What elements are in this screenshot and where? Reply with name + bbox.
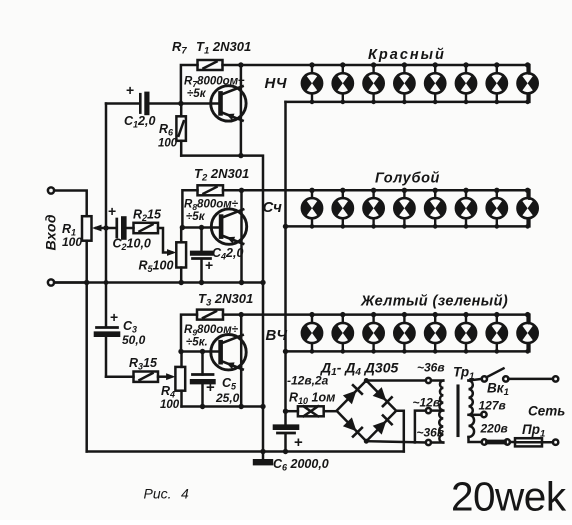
svg-text:+: +: [294, 434, 303, 451]
svg-text:127в: 127в: [479, 399, 506, 413]
wire signal column C1-C2-C3: [105, 104, 108, 327]
svg-text:+: +: [205, 257, 213, 273]
fuse Pr1: [515, 438, 553, 446]
wire bridge bottom to ~36v lower tap: [366, 441, 426, 442]
capacitor C2: [117, 219, 134, 237]
svg-text:220в: 220в: [480, 422, 508, 436]
wire T3 collector-emitter column: [240, 315, 243, 407]
svg-text:Голубой: Голубой: [375, 171, 440, 187]
wire T2 collector-emitter column: [240, 190, 243, 282]
svg-text:НЧ: НЧ: [265, 75, 287, 92]
node R10 junction on return column: [283, 409, 288, 414]
input terminal upper: [48, 187, 54, 193]
lamp row1 #6: [456, 62, 476, 104]
node T1 base junction: [178, 101, 183, 106]
wire T2 base: [182, 226, 221, 229]
lamp row1 #1: [302, 62, 322, 104]
node row2 bottom bus joins return: [283, 224, 288, 229]
svg-text:Сеть: Сеть: [528, 404, 565, 419]
lamp row3 #6: [456, 312, 476, 354]
svg-text:Тр1: Тр1: [453, 365, 474, 383]
wire T3 emitter rail: [182, 405, 264, 408]
transformer Tr1 primary winding: [439, 381, 443, 443]
svg-text:Красный: Красный: [368, 47, 446, 63]
svg-text:R8800ом÷: R8800ом÷: [184, 199, 239, 213]
node bridge bottom vertex: [364, 439, 369, 444]
resistor R2: [134, 223, 159, 233]
svg-text:R4: R4: [161, 384, 175, 400]
lamp row3 #2: [333, 312, 353, 354]
lamp row3 #5: [425, 312, 445, 354]
svg-text:C5: C5: [222, 376, 237, 392]
svg-text:R10 1ом: R10 1ом: [289, 391, 335, 407]
svg-text:R215: R215: [133, 208, 162, 224]
capacitor C1: [106, 94, 221, 112]
node T1 collector: [238, 62, 243, 67]
lamp row2 #5: [425, 188, 445, 229]
node T2 emitter on ground rail: [239, 280, 244, 285]
wire row1 top bus: [223, 65, 530, 74]
svg-text:+: +: [126, 82, 134, 98]
svg-text:÷5к: ÷5к: [186, 211, 206, 223]
lamp row2 #1: [302, 188, 322, 229]
resistor R3: [134, 372, 159, 382]
node T1 emitter: [238, 153, 243, 158]
node signal column crosses ground rail: [104, 280, 109, 285]
potentiometer R5: [176, 228, 186, 283]
wire T1 emitter rail: [181, 154, 241, 157]
transistor T2: [211, 209, 246, 244]
transistor T1: [211, 86, 246, 121]
node T3 emitter: [239, 404, 244, 409]
node T3 collector: [239, 312, 244, 317]
svg-text:100: 100: [160, 399, 180, 411]
node R5 bottom on ground rail: [179, 280, 184, 285]
svg-text:T1 2N301: T1 2N301: [196, 39, 251, 57]
svg-text:Д1- Д4 Д305: Д1- Д4 Д305: [320, 360, 398, 379]
svg-text:4: 4: [181, 486, 189, 502]
node C5 bottom: [200, 404, 205, 409]
switch Vk1: [482, 368, 553, 381]
terminal mains upper: [553, 376, 558, 381]
wire row3 bottom bus: [286, 343, 530, 351]
svg-text:Пр1: Пр1: [522, 422, 545, 440]
lamp row2 #4: [394, 188, 414, 229]
lamp row2 #7: [487, 188, 507, 229]
R1 wiper arrow: [96, 227, 115, 230]
lamp row1 #2: [333, 62, 353, 104]
resistor R9: [181, 310, 223, 352]
svg-text:20wek: 20wek: [451, 474, 567, 520]
switch pole lower closed contact: [482, 439, 515, 444]
wire ~12v tap branch: [415, 411, 426, 443]
ground symbol: [253, 452, 273, 466]
transistor T3: [211, 335, 246, 370]
R5 wiper arrow: [167, 249, 176, 256]
svg-text:Сч: Сч: [263, 199, 283, 216]
terminal mains lower: [553, 440, 558, 445]
wire row1 bottom bus: [286, 94, 530, 102]
wire T3 base: [181, 350, 221, 353]
svg-text:R5100: R5100: [139, 259, 174, 275]
diode D2 top-right: [373, 387, 387, 401]
svg-text:100: 100: [62, 235, 82, 249]
R4 wiper arrow: [166, 373, 175, 380]
svg-text:50,0: 50,0: [122, 333, 146, 347]
resistor R8: [182, 185, 223, 227]
potentiometer R4: [175, 352, 185, 407]
wire left outer column to bottom rail: [85, 283, 88, 452]
transformer core: [456, 386, 459, 436]
terminal 127v: [481, 412, 486, 417]
diode bridge ring: [337, 381, 397, 442]
wire bridge right vertex to bottom rail: [396, 411, 404, 452]
node ground column on bottom rail: [260, 449, 265, 454]
svg-text:÷5к.: ÷5к.: [186, 337, 208, 349]
node C4 bottom on ground rail: [199, 280, 204, 285]
svg-text:R6: R6: [159, 122, 174, 138]
wire row2 bottom bus: [286, 219, 530, 227]
resistor R6: [176, 104, 186, 156]
capacitor C4: [193, 228, 211, 283]
svg-text:R78000ом÷: R78000ом÷: [184, 76, 245, 90]
svg-text:~12в: ~12в: [413, 396, 441, 410]
terminal ~36v top: [426, 378, 431, 383]
node row3 bottom bus joins return: [283, 349, 288, 354]
wire secondary bottom 220v: [469, 437, 482, 442]
lamp row3 #4: [394, 312, 414, 354]
svg-text:C6 2000,0: C6 2000,0: [273, 457, 329, 473]
svg-text:R315: R315: [129, 356, 158, 372]
svg-text:+: +: [110, 309, 118, 325]
terminal ~36v lower: [426, 440, 431, 445]
svg-text:Желтый (зеленый): Желтый (зеленый): [360, 294, 508, 310]
terminal ~12v: [426, 408, 431, 413]
lamp row2 #8: [517, 188, 537, 229]
resistor R10: [286, 406, 337, 416]
input terminal lower: [48, 279, 54, 285]
node T2 collector: [239, 188, 244, 193]
wire T1 collector column: [240, 65, 243, 156]
wire secondary top to switch: [469, 379, 482, 381]
lamp row3 #1: [302, 312, 322, 354]
lamp row1 #5: [425, 62, 445, 104]
svg-text:+: +: [206, 379, 215, 396]
svg-text:~36в: ~36в: [417, 426, 445, 440]
node T2 base junction: [180, 225, 185, 230]
svg-text:25,0: 25,0: [215, 391, 240, 405]
svg-text:÷5к: ÷5к: [187, 88, 207, 100]
wire secondary 127v tap: [469, 414, 482, 417]
node R1-bottom junction: [84, 280, 89, 285]
wire row2 top bus: [223, 190, 529, 198]
lamp row1 #3: [363, 62, 383, 104]
wire row3 top bus: [223, 315, 529, 324]
capacitor C6: [276, 427, 297, 451]
wire input lower to ground rail: [54, 281, 86, 284]
svg-text:Рис.: Рис.: [144, 486, 172, 502]
wire ground column to bottom rail: [262, 283, 265, 452]
svg-text:~36в: ~36в: [417, 361, 445, 375]
diode D1 top-left: [343, 391, 357, 405]
capacitor C5: [193, 352, 214, 407]
svg-text:R7: R7: [172, 39, 187, 57]
transformer Tr1 secondary winding: [469, 380, 475, 437]
diode D4 bottom-right: [373, 421, 387, 435]
node T3 rail joins ground column: [260, 404, 265, 409]
lamp row2 #6: [456, 188, 476, 229]
node signal column on wiper line: [103, 225, 108, 230]
lamp row1 #8: [517, 62, 537, 104]
bottom rail: [87, 450, 404, 453]
lamp row1 #7: [487, 62, 507, 104]
ground rail (common emitter bus): [54, 281, 263, 284]
node T1 emitter joins ground rail: [260, 280, 265, 285]
wire lamp return column: [284, 102, 287, 425]
lamp row3 #7: [487, 312, 507, 354]
svg-text:+: +: [108, 203, 116, 219]
lamp row3 #8: [517, 312, 537, 354]
wire input upper to R1 top: [54, 191, 86, 217]
lamp row2 #3: [363, 188, 383, 229]
diode D3 bottom-left: [343, 417, 357, 431]
lamp row3 #3: [363, 312, 383, 354]
svg-text:Вход: Вход: [43, 214, 59, 251]
svg-text:R9800ом÷: R9800ом÷: [184, 324, 239, 338]
wire C3 to R3: [106, 375, 134, 378]
capacitor C3: [97, 328, 118, 377]
wire R2 to R5 wiper: [158, 228, 172, 253]
node C4 top: [199, 225, 204, 230]
svg-text:T3 2N301: T3 2N301: [198, 291, 253, 309]
node C5 top: [200, 349, 205, 354]
wire T1 emitter to ground rail: [241, 156, 263, 283]
svg-text:ВЧ: ВЧ: [266, 327, 288, 344]
svg-text:C12,0: C12,0: [124, 114, 155, 130]
svg-text:C42,0: C42,0: [212, 246, 243, 262]
wire R1 bottom to ground rail: [85, 241, 88, 283]
svg-text:T2 2N301: T2 2N301: [194, 166, 249, 184]
svg-text:C210,0: C210,0: [113, 237, 151, 253]
svg-text:100: 100: [158, 138, 178, 150]
node T3 base junction: [178, 349, 183, 354]
resistor R7: [181, 60, 223, 104]
potentiometer R1: [82, 216, 92, 241]
wire R3 to R4 wiper: [158, 375, 171, 378]
lamp row2 #2: [333, 188, 353, 229]
lamp row1 #4: [394, 62, 414, 104]
node bridge top vertex: [364, 378, 369, 383]
wire bridge top to ~36v tap: [366, 379, 426, 382]
svg-text:-12в,2а: -12в,2а: [287, 374, 329, 388]
node C6 bottom on bottom rail: [283, 449, 288, 454]
svg-text:Вк1: Вк1: [487, 381, 509, 399]
